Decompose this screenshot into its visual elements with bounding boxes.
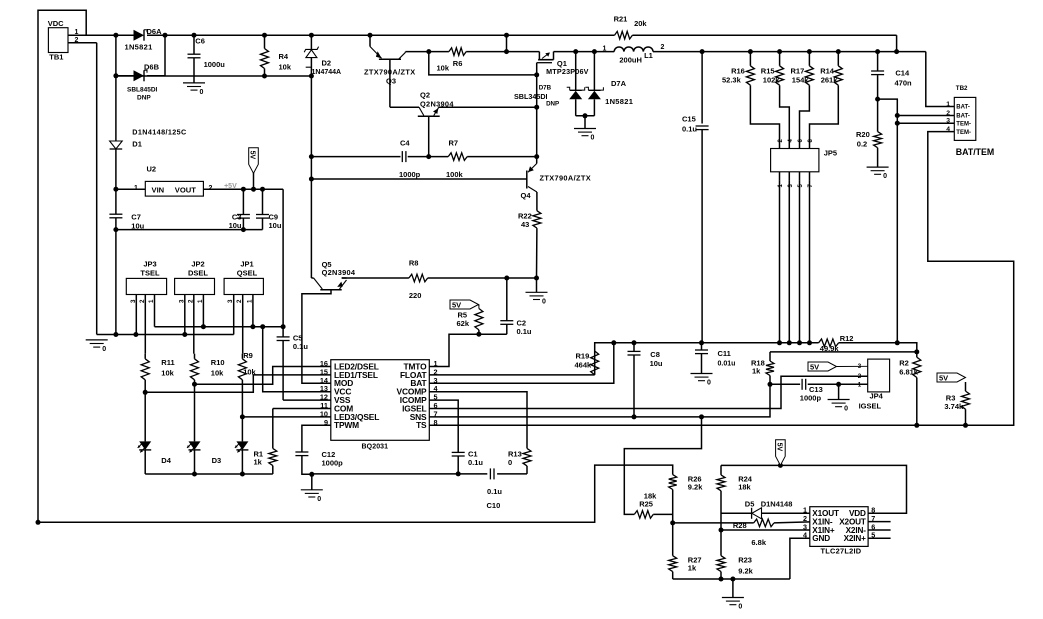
wire TB1 pin2 bbox=[68, 42, 97, 44]
wire bbox=[799, 181, 801, 343]
resistor bbox=[874, 132, 882, 148]
wire bbox=[750, 85, 779, 143]
wire bbox=[193, 35, 195, 54]
wire ground rail bbox=[97, 334, 234, 336]
wire stub bbox=[868, 529, 891, 531]
svg-text:0.01u: 0.01u bbox=[718, 361, 736, 368]
wire bbox=[194, 450, 196, 474]
junction bbox=[36, 520, 41, 525]
wire bbox=[762, 512, 810, 514]
junction bbox=[251, 187, 256, 192]
jumper JP4 IGSEL bbox=[868, 359, 890, 392]
wire bbox=[788, 172, 790, 181]
node TSEL bbox=[143, 390, 148, 395]
wire bbox=[809, 172, 811, 181]
wire bbox=[467, 156, 537, 158]
wire bbox=[810, 85, 839, 143]
inductor L1 200uH bbox=[614, 47, 653, 52]
junction bbox=[113, 227, 118, 232]
wire gate column bbox=[536, 75, 538, 157]
svg-text:0: 0 bbox=[200, 89, 204, 96]
junction bbox=[583, 113, 588, 118]
wire bbox=[429, 376, 867, 408]
resistor bbox=[717, 556, 725, 572]
wire bbox=[624, 417, 701, 515]
jumper block JP5 bbox=[771, 149, 819, 172]
junction bbox=[133, 332, 138, 337]
wire bbox=[536, 228, 538, 278]
regulator U2 bbox=[145, 181, 203, 196]
svg-text:464k: 464k bbox=[575, 361, 593, 370]
wire bbox=[595, 343, 614, 351]
node QSEL bbox=[240, 414, 245, 419]
wire bbox=[897, 122, 954, 124]
svg-text:D5: D5 bbox=[745, 500, 755, 509]
wire bbox=[526, 466, 528, 474]
svg-text:C15: C15 bbox=[682, 115, 696, 124]
svg-text:1: 1 bbox=[603, 46, 607, 53]
resistor R10 10k bbox=[191, 359, 199, 380]
capacitor bbox=[695, 349, 708, 351]
wire bbox=[672, 572, 674, 579]
wire bbox=[536, 278, 538, 292]
wire bbox=[428, 277, 537, 279]
svg-text:154k: 154k bbox=[792, 76, 810, 85]
wire bbox=[749, 52, 751, 66]
svg-text:D1N4148: D1N4148 bbox=[761, 500, 793, 509]
wire top rail right bbox=[632, 34, 896, 36]
power flag 5V (op-amp) bbox=[776, 440, 786, 466]
svg-text:VIN: VIN bbox=[152, 186, 165, 195]
svg-text:QSEL: QSEL bbox=[237, 269, 258, 278]
wire bbox=[195, 367, 331, 385]
junction bbox=[201, 324, 206, 329]
junction bbox=[309, 472, 314, 477]
junction bbox=[748, 49, 753, 54]
wire stub bbox=[868, 521, 891, 523]
svg-text:10k: 10k bbox=[279, 63, 292, 72]
wire bbox=[877, 75, 879, 132]
ground 0 below C11 bbox=[691, 373, 713, 375]
wire JP3 pin3 to gnd bbox=[135, 295, 137, 335]
wire bbox=[429, 384, 770, 417]
junction bbox=[192, 472, 197, 477]
junction bbox=[534, 105, 539, 110]
resistor bbox=[533, 211, 541, 228]
svg-text:SBL345DI: SBL345DI bbox=[514, 92, 548, 101]
wire JP2 pin1 bbox=[202, 295, 204, 327]
wire bbox=[779, 52, 781, 66]
svg-text:DNP: DNP bbox=[137, 95, 151, 102]
junction bbox=[163, 33, 168, 38]
junction bbox=[895, 113, 900, 118]
wire JP2 pin3 to gnd bbox=[184, 295, 186, 335]
resistor R11 10k bbox=[141, 359, 149, 380]
wire bbox=[116, 75, 312, 77]
diode D5 D1N4148 bbox=[751, 508, 753, 519]
wire bbox=[264, 35, 266, 48]
svg-text:GND: GND bbox=[812, 534, 830, 543]
svg-text:R28: R28 bbox=[733, 521, 747, 530]
svg-text:Q2N3904: Q2N3904 bbox=[322, 268, 356, 277]
transistor Q1 MTP23P06V (P-MOSFET) bbox=[538, 52, 540, 60]
ground 0 (R8 rail) bbox=[526, 291, 548, 293]
wire bbox=[406, 51, 449, 53]
wire bbox=[144, 450, 146, 474]
wire bbox=[965, 409, 967, 425]
svg-text:R21: R21 bbox=[614, 15, 628, 24]
capacitor bbox=[295, 451, 308, 453]
junction bbox=[700, 49, 705, 54]
wire D2 node column bbox=[310, 76, 312, 278]
wire bbox=[302, 456, 312, 475]
junction bbox=[260, 324, 265, 329]
wire bbox=[506, 278, 508, 321]
svg-text:1k: 1k bbox=[752, 367, 761, 376]
wire down to mid rail bbox=[896, 35, 898, 51]
junction bbox=[963, 423, 968, 428]
capacitor bbox=[452, 451, 465, 453]
wire bbox=[429, 334, 507, 366]
wire Q1 gate down bbox=[536, 63, 538, 75]
wire LED cathode rail bbox=[145, 473, 273, 475]
wire JP3 pin1 bbox=[154, 295, 156, 327]
svg-text:5V: 5V bbox=[939, 374, 948, 383]
capacitor bbox=[871, 70, 884, 72]
wire bbox=[312, 473, 488, 475]
wire R9 to LED bbox=[241, 380, 243, 442]
wire bbox=[497, 473, 527, 475]
transistor Q5 Q2N3904 bbox=[320, 289, 341, 291]
svg-text:0: 0 bbox=[542, 298, 546, 305]
wire bbox=[478, 330, 480, 334]
svg-text:1000u: 1000u bbox=[204, 60, 226, 69]
wire bbox=[311, 474, 313, 490]
junction bbox=[504, 49, 509, 54]
svg-text:IGSEL: IGSEL bbox=[859, 401, 882, 410]
wire bbox=[506, 324, 508, 334]
wire bbox=[701, 354, 703, 374]
svg-text:18k: 18k bbox=[738, 483, 751, 492]
wire bbox=[262, 189, 264, 214]
wire bbox=[429, 343, 614, 384]
svg-text:TEM-: TEM- bbox=[956, 130, 971, 136]
jumper JP3 TSEL bbox=[126, 278, 166, 294]
wire +5V rail bbox=[203, 188, 283, 190]
wire JP1 pin2 to R9 bbox=[242, 295, 244, 354]
svg-text:R12: R12 bbox=[840, 334, 854, 343]
svg-text:1000p: 1000p bbox=[322, 459, 344, 468]
jumper JP2 DSEL bbox=[175, 278, 215, 294]
power flag 5V (JP4) bbox=[808, 362, 837, 371]
svg-text:D3: D3 bbox=[212, 456, 222, 465]
svg-text:R11: R11 bbox=[161, 358, 174, 367]
junction bbox=[262, 33, 267, 38]
svg-text:R7: R7 bbox=[449, 138, 459, 147]
wire bbox=[701, 343, 703, 350]
svg-text:0.1u: 0.1u bbox=[682, 125, 697, 134]
svg-text:R10: R10 bbox=[211, 358, 225, 367]
wire select common to +5V bbox=[155, 326, 284, 328]
svg-text:TSEL: TSEL bbox=[140, 269, 160, 278]
wire bbox=[272, 466, 274, 474]
junction bbox=[914, 349, 919, 354]
wire bbox=[788, 181, 790, 343]
wire bbox=[769, 376, 771, 385]
wire bbox=[194, 354, 196, 359]
junction bbox=[241, 227, 246, 232]
wire Q2 base down bbox=[428, 116, 430, 156]
transistor Q4 ZTX790A/ZTX bbox=[526, 171, 528, 189]
svg-text:5V: 5V bbox=[452, 301, 461, 310]
wire bbox=[311, 156, 400, 158]
junction bbox=[113, 332, 118, 337]
ground 0 below R20 bbox=[867, 166, 889, 168]
capacitor bbox=[500, 320, 513, 322]
wire bbox=[788, 144, 790, 149]
svg-text:D2: D2 bbox=[322, 59, 332, 68]
node D2 bottom bbox=[309, 74, 314, 79]
wire bbox=[780, 85, 790, 143]
capacitor bbox=[628, 350, 641, 352]
svg-text:TB2: TB2 bbox=[956, 85, 968, 92]
junction bbox=[504, 276, 509, 281]
wire top rail bbox=[147, 34, 615, 36]
svg-text:3.74k: 3.74k bbox=[944, 402, 964, 411]
svg-text:0: 0 bbox=[738, 604, 742, 611]
junction bbox=[807, 340, 812, 345]
svg-text:10k: 10k bbox=[211, 369, 224, 378]
junction bbox=[914, 423, 919, 428]
junction bbox=[699, 340, 704, 345]
resistor bbox=[591, 351, 599, 375]
IC U1 BQ2031 bbox=[331, 360, 430, 441]
wire bbox=[809, 181, 811, 343]
resistor R3 3.74k bbox=[962, 391, 970, 409]
wire bbox=[720, 465, 722, 475]
wire bbox=[272, 409, 274, 449]
wire bbox=[673, 522, 754, 524]
wire +5V column down bbox=[282, 189, 284, 336]
wire U2 pin1 bbox=[116, 188, 145, 190]
svg-text:C7: C7 bbox=[131, 213, 141, 222]
wire bbox=[575, 99, 577, 116]
svg-text:43: 43 bbox=[521, 220, 529, 229]
svg-text:5V: 5V bbox=[810, 363, 819, 372]
junction bbox=[309, 177, 314, 182]
wire bbox=[800, 85, 810, 143]
wire to VSS pin bbox=[282, 341, 284, 401]
svg-text:2: 2 bbox=[209, 185, 213, 192]
resistor bbox=[805, 66, 813, 85]
resistor bbox=[669, 556, 677, 572]
svg-text:0: 0 bbox=[883, 173, 887, 180]
wire bbox=[774, 522, 810, 523]
wire bbox=[575, 52, 577, 91]
wire JP2 pin2 to R10 bbox=[193, 295, 195, 354]
ground 0 left bbox=[86, 339, 108, 341]
svg-text:0: 0 bbox=[508, 458, 512, 467]
resistor R25 18k bbox=[634, 511, 653, 519]
svg-text:C4: C4 bbox=[400, 138, 410, 147]
wire bbox=[576, 115, 595, 117]
wire bbox=[593, 99, 595, 116]
svg-text:9.2k: 9.2k bbox=[738, 567, 753, 576]
resistor bbox=[913, 357, 921, 377]
wire bbox=[770, 383, 800, 385]
junction bbox=[592, 49, 597, 54]
svg-text:6.81k: 6.81k bbox=[899, 368, 919, 377]
IC U3 TLC27L2ID bbox=[810, 507, 868, 547]
wire mid rail right bbox=[653, 51, 926, 53]
wire bbox=[916, 352, 918, 357]
svg-text:Q2: Q2 bbox=[420, 91, 430, 100]
wire bbox=[283, 399, 331, 401]
junction bbox=[768, 382, 773, 387]
svg-text:D1N4148/125C: D1N4148/125C bbox=[132, 128, 186, 137]
svg-text:1000p: 1000p bbox=[800, 394, 822, 403]
wire bbox=[478, 305, 480, 309]
junction bbox=[426, 49, 431, 54]
svg-text:20k: 20k bbox=[634, 19, 647, 28]
resistor bbox=[746, 66, 754, 85]
svg-text:1k: 1k bbox=[688, 563, 697, 572]
junction bbox=[797, 340, 802, 345]
junction bbox=[787, 340, 792, 345]
resistor bbox=[717, 475, 725, 491]
svg-text:102k: 102k bbox=[763, 76, 781, 85]
svg-text:DNP: DNP bbox=[546, 101, 559, 108]
capacitor C10 0.1u bbox=[489, 468, 491, 479]
terminal block TB1 (VDC input) bbox=[48, 28, 68, 53]
wire bbox=[241, 450, 243, 474]
svg-text:BAT-: BAT- bbox=[956, 114, 970, 120]
svg-text:R8: R8 bbox=[409, 259, 419, 268]
svg-text:D7A: D7A bbox=[611, 79, 627, 88]
capacitor C5 0.1u (bypass) bbox=[277, 336, 290, 338]
svg-text:C8: C8 bbox=[650, 350, 660, 359]
capacitor C15 0.1u bbox=[696, 125, 709, 127]
ground 0 below C12 bbox=[301, 489, 323, 491]
svg-text:R25: R25 bbox=[639, 500, 653, 509]
svg-text:0.2: 0.2 bbox=[857, 140, 867, 149]
svg-text:0: 0 bbox=[707, 380, 711, 387]
wire TB1 pin2 down to ground rail bbox=[96, 43, 98, 335]
junction bbox=[534, 154, 539, 159]
junction bbox=[241, 187, 246, 192]
svg-text:9.2k: 9.2k bbox=[688, 483, 703, 492]
zener diode D2 1N4744A bbox=[310, 35, 312, 49]
power flag 5V (R3) bbox=[937, 373, 966, 382]
LED D3 bbox=[189, 441, 201, 450]
svg-text:100k: 100k bbox=[446, 170, 464, 179]
junction bbox=[426, 154, 431, 159]
node VDC-in junction bbox=[113, 33, 118, 38]
transistor Q3 ZTX790A/ZTX bbox=[369, 35, 371, 46]
wire bbox=[242, 218, 244, 230]
svg-text:R6: R6 bbox=[453, 59, 463, 68]
wire bbox=[311, 277, 313, 279]
svg-text:1k: 1k bbox=[254, 458, 263, 467]
junction bbox=[573, 49, 578, 54]
wire bbox=[809, 144, 811, 149]
svg-text:Q4: Q4 bbox=[521, 191, 532, 200]
wire Q2 emitter to gate column bbox=[439, 106, 537, 108]
wire bbox=[721, 529, 810, 531]
wire bbox=[633, 355, 635, 417]
resistor R21 bbox=[615, 31, 633, 39]
wire TB1 pin1 to top rail bbox=[68, 34, 116, 36]
junction bbox=[534, 276, 539, 281]
svg-text:C14: C14 bbox=[895, 69, 910, 78]
svg-text:VOUT: VOUT bbox=[175, 186, 196, 195]
diode bbox=[134, 70, 145, 81]
wire bbox=[38, 10, 673, 522]
junction bbox=[699, 414, 704, 419]
junction bbox=[260, 187, 265, 192]
wire bbox=[241, 354, 243, 359]
svg-text:R14: R14 bbox=[820, 67, 835, 76]
resistor R28 6.8k bbox=[754, 519, 774, 527]
wire bbox=[926, 52, 955, 107]
wire bbox=[701, 52, 703, 124]
wire JP1 pin1 bbox=[252, 295, 254, 327]
wire bbox=[808, 52, 810, 66]
resistor bbox=[269, 448, 277, 465]
svg-text:R23: R23 bbox=[738, 555, 752, 564]
svg-text:R15: R15 bbox=[761, 67, 775, 76]
svg-text:JP4: JP4 bbox=[870, 392, 884, 401]
wire bbox=[429, 132, 1013, 426]
resistor bbox=[669, 475, 677, 490]
junction bbox=[192, 33, 197, 38]
wire JP1 pin3 to gnd bbox=[233, 295, 235, 335]
svg-text:Q3: Q3 bbox=[386, 77, 396, 86]
svg-text:SBL845DI: SBL845DI bbox=[127, 87, 158, 94]
wire bbox=[478, 305, 480, 307]
svg-text:TS: TS bbox=[416, 420, 427, 430]
wire drain to L1 bbox=[554, 51, 615, 53]
svg-text:U2: U2 bbox=[147, 165, 157, 174]
junction bbox=[719, 528, 724, 533]
capacitor bbox=[237, 214, 250, 216]
svg-text:52.3k: 52.3k bbox=[722, 76, 742, 85]
junction bbox=[250, 324, 255, 329]
wire bbox=[273, 408, 331, 410]
wire bbox=[145, 375, 331, 392]
junction bbox=[894, 49, 899, 54]
svg-text:R19: R19 bbox=[576, 352, 590, 361]
resistor bbox=[776, 66, 784, 85]
wire bbox=[147, 75, 165, 77]
junction bbox=[632, 414, 637, 419]
wire bbox=[790, 538, 810, 579]
wire bbox=[594, 351, 596, 375]
svg-text:0.1u: 0.1u bbox=[293, 342, 308, 351]
resistor bbox=[819, 339, 839, 347]
svg-text:D7B: D7B bbox=[539, 85, 552, 92]
wire bbox=[116, 75, 134, 77]
svg-text:62k: 62k bbox=[457, 319, 470, 328]
ground 0 below C6 bbox=[183, 82, 205, 84]
wire bbox=[897, 115, 954, 117]
junction bbox=[875, 49, 880, 54]
wire bbox=[536, 192, 538, 211]
wire Q3 base down bbox=[389, 59, 391, 107]
resistor bbox=[475, 309, 483, 330]
node U2 VIN bbox=[113, 187, 118, 192]
junction bbox=[476, 332, 481, 337]
